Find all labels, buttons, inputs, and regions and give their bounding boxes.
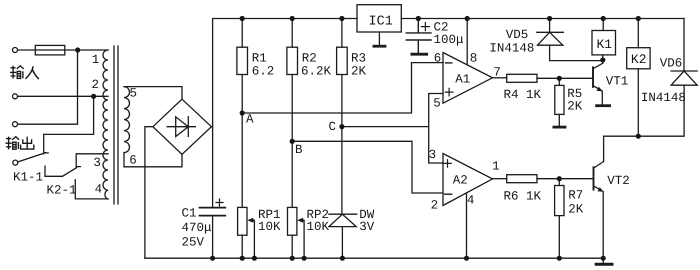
wire R4 to VT1 base xyxy=(537,77,592,79)
resistor R2 xyxy=(291,19,293,142)
transistor VT2 base bar xyxy=(593,167,595,189)
VT1 collector xyxy=(594,63,603,68)
RP1 wiper xyxy=(250,220,255,258)
resistor R1 xyxy=(241,19,243,114)
junction R3/top bus xyxy=(339,16,344,21)
node B dot xyxy=(290,139,295,144)
capacitor C2 xyxy=(406,19,431,54)
svg-text:25V: 25V xyxy=(182,236,205,250)
svg-text:100μ: 100μ xyxy=(434,33,465,47)
terminal T1 (AC input top) xyxy=(13,48,18,53)
resistor R7 xyxy=(558,179,560,259)
junction dot tap2 node xyxy=(91,94,96,99)
A2 plus sign xyxy=(444,160,451,167)
svg-text:A: A xyxy=(246,113,254,127)
svg-text:470μ: 470μ xyxy=(182,221,213,235)
junction DW/bottom bus xyxy=(340,256,345,261)
junction R2/top bus xyxy=(290,16,295,21)
svg-text:R7: R7 xyxy=(568,188,583,202)
relay coil K1 xyxy=(592,31,616,55)
RP2 wiper arrowhead xyxy=(297,218,303,223)
junction dot fuse node xyxy=(75,47,80,52)
A1 pin8 power stub xyxy=(466,19,468,65)
node C dot xyxy=(339,124,344,129)
A2 pin4 to bottom bus xyxy=(466,193,468,258)
zener diode DW xyxy=(329,214,357,258)
relay coil K2 xyxy=(627,48,650,69)
svg-text:4: 4 xyxy=(467,194,475,208)
switch K2-1 arm xyxy=(62,168,76,177)
diode VD6 xyxy=(604,19,698,137)
junction VD5/top bus xyxy=(547,16,552,21)
svg-text:1: 1 xyxy=(492,159,500,173)
wire T1 to fuse xyxy=(18,49,36,51)
svg-text:IN4148: IN4148 xyxy=(641,91,686,105)
transformer T secondary winding xyxy=(124,87,130,153)
svg-text:R4 1K: R4 1K xyxy=(504,88,542,102)
wire node C to A1 pin5 / A2 pin3 xyxy=(342,94,443,164)
A2 minus sign xyxy=(445,193,452,195)
C1 polarity plus xyxy=(216,199,223,206)
wire: K1-1 lower contact to K2-1 pivot xyxy=(45,166,62,176)
K2 bottom stub xyxy=(637,69,639,136)
wire: C1 to bottom bus xyxy=(212,216,214,259)
junction C1/bottom bus xyxy=(210,256,215,261)
junction RP1 wiper/bottom bus xyxy=(252,256,257,261)
junction R7/bottom bus xyxy=(557,256,562,261)
resistor R4 xyxy=(507,74,537,82)
resistor R6 xyxy=(507,175,537,183)
junction dot VD5/K1/VT1 xyxy=(600,57,605,62)
bridge rectifier VC xyxy=(153,99,212,154)
junction dot K2/VD6/VT2 xyxy=(636,134,641,139)
svg-text:IC1: IC1 xyxy=(369,15,393,30)
svg-text:VD6: VD6 xyxy=(660,57,683,71)
terminal T2 (AC input bottom) xyxy=(13,94,18,99)
RP2 wiper xyxy=(299,220,304,258)
wire R6 to VT2 base xyxy=(537,178,593,180)
VT1 emitter ground xyxy=(597,104,610,107)
node A dot xyxy=(240,110,245,115)
junction VT2 emitter/bottom bus xyxy=(601,256,606,261)
svg-text:4: 4 xyxy=(95,183,103,197)
transformer T primary winding xyxy=(103,50,108,199)
K1 top stub xyxy=(602,19,604,31)
junction R1/top bus xyxy=(240,16,245,21)
svg-text:K1: K1 xyxy=(597,37,613,52)
IC1 box xyxy=(357,5,401,32)
junction RP2/bottom bus xyxy=(290,256,295,261)
svg-text:K2-1: K2-1 xyxy=(47,183,77,197)
K1 bottom stub to VT1 collector xyxy=(602,55,604,63)
op-amp A2 xyxy=(443,154,493,206)
svg-text:2K: 2K xyxy=(568,203,584,217)
R5 ground xyxy=(554,126,565,129)
svg-text:2K: 2K xyxy=(567,100,583,114)
A1 pin7 output wire xyxy=(493,77,507,79)
wire: bridge DC plus stub xyxy=(211,126,212,128)
wire T2 to transformer tap 2 xyxy=(18,95,108,97)
K2 top stub xyxy=(637,19,639,48)
circuit ground at bus end xyxy=(602,258,604,263)
svg-text:2K: 2K xyxy=(351,64,367,78)
junction K2/top bus xyxy=(636,16,641,21)
svg-text:5: 5 xyxy=(130,86,138,100)
wire: bottom bus xyxy=(145,257,603,259)
A2 pin1 output wire xyxy=(493,178,507,180)
svg-text:6.2K: 6.2K xyxy=(301,64,332,78)
svg-text:IN4148: IN4148 xyxy=(489,42,534,56)
svg-text:R6 1K: R6 1K xyxy=(504,190,542,204)
wire: node A down to RP1 xyxy=(241,113,243,207)
potentiometer RP2 xyxy=(288,207,297,235)
wire: secondary pin5 to bridge AC top xyxy=(124,87,182,100)
svg-text:C1: C1 xyxy=(182,206,197,220)
svg-text:A1: A1 xyxy=(455,72,470,86)
terminal T3 (output top) xyxy=(13,122,18,127)
svg-text:5: 5 xyxy=(433,97,441,111)
svg-text:3V: 3V xyxy=(359,220,375,234)
junction C2/top bus xyxy=(416,16,421,21)
svg-text:8: 8 xyxy=(470,51,478,65)
svg-text:7: 7 xyxy=(493,66,501,80)
terminal T4 (output bottom) xyxy=(13,160,18,165)
wire: bridge DC minus to bottom bus xyxy=(145,127,153,259)
svg-text:A2: A2 xyxy=(453,173,468,187)
wire: positive rail from bridge up to top bus and down to C1 xyxy=(213,19,357,208)
fuse FU (wire through body) xyxy=(35,49,108,51)
capacitor C1 plates xyxy=(200,208,226,216)
svg-text:3: 3 xyxy=(93,156,101,170)
junction A2 pin4/bottom bus xyxy=(464,256,469,261)
svg-text:VD5: VD5 xyxy=(506,28,529,42)
svg-text:2: 2 xyxy=(92,78,100,92)
junction dot R4/R5 xyxy=(557,76,562,81)
VT2 emitter arrowhead xyxy=(598,187,604,192)
wire: top bus right section xyxy=(401,18,684,20)
switch K1-1 arm xyxy=(18,153,46,162)
resistor R3 xyxy=(341,19,343,215)
svg-text:C: C xyxy=(329,120,337,134)
svg-text:K1-1: K1-1 xyxy=(13,170,43,184)
svg-text:2: 2 xyxy=(431,199,439,213)
label 输出 (output) xyxy=(6,137,20,150)
svg-text:3: 3 xyxy=(429,148,437,162)
transformer core xyxy=(114,46,118,204)
IC1 ground xyxy=(378,32,380,45)
transistor VT1 base bar xyxy=(592,67,594,87)
wire: K2-1 upper contact to transformer tap 3 xyxy=(76,154,108,168)
RP1 wiper arrowhead xyxy=(247,218,253,223)
svg-text:K2: K2 xyxy=(631,52,647,67)
wire node B to A2 pin2 xyxy=(292,141,443,193)
label 输入 (input) xyxy=(10,66,24,79)
resistor R5 xyxy=(558,78,560,125)
junction K1/top bus xyxy=(601,16,606,21)
C2 ground xyxy=(412,53,427,56)
junction A1 pin8/top bus xyxy=(465,16,470,21)
svg-text:10K: 10K xyxy=(307,220,330,234)
diode VD5 xyxy=(537,19,603,61)
A1 plus sign xyxy=(445,88,453,96)
svg-text:10K: 10K xyxy=(258,220,281,234)
VT2 collector to relay K2 line xyxy=(594,136,604,168)
bridge diode symbol xyxy=(167,117,195,137)
junction RP2 wiper/bottom bus xyxy=(302,256,307,261)
potentiometer RP1 xyxy=(238,207,247,235)
op-amp A1 xyxy=(443,53,493,104)
svg-text:VT2: VT2 xyxy=(607,174,630,188)
junction dot R6/R7 xyxy=(557,176,562,181)
VT1 emitter arrowhead xyxy=(597,87,603,92)
wire: node B down to RP2 xyxy=(291,141,293,207)
svg-text:VT1: VT1 xyxy=(606,75,629,89)
wire: K2-1 lower contact to transformer tap 4 xyxy=(75,180,108,199)
VT2 emitter xyxy=(594,186,604,258)
A1 minus sign xyxy=(446,62,452,64)
svg-text:1: 1 xyxy=(92,53,100,67)
wire: vertical from fuse junction down to output terminal T3 xyxy=(18,50,78,124)
wire: K1-1 upper contact feed from tap2 junction xyxy=(44,96,94,154)
junction RP1/bottom bus xyxy=(240,256,245,261)
svg-text:6: 6 xyxy=(129,153,137,167)
svg-text:6.2: 6.2 xyxy=(252,64,275,78)
svg-text:6: 6 xyxy=(434,51,442,65)
wire node A to A1 pin6 xyxy=(242,63,443,113)
C2 polarity plus xyxy=(421,23,429,31)
wire: secondary pin6 to bridge AC bottom xyxy=(124,153,182,167)
VT1 emitter xyxy=(593,86,602,104)
svg-text:B: B xyxy=(295,143,303,157)
